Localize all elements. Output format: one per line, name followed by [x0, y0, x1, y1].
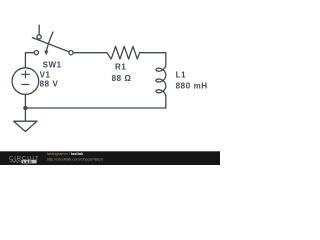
watermark bar: [0, 151, 220, 165]
switch SW1 right terminal: [69, 51, 73, 55]
wire V1 bottom to ground: [24, 94, 26, 121]
switch SW1 pivot stub wire: [38, 25, 40, 35]
wire left terminal to V1 top: [25, 53, 34, 68]
resistor R1 zigzag: [107, 46, 140, 59]
svg-text:farahgramm / lastlok: farahgramm / lastlok: [47, 151, 84, 156]
svg-text:88 Ω: 88 Ω: [112, 74, 132, 83]
svg-text:R1: R1: [115, 62, 126, 71]
svg-text:V1: V1: [40, 71, 51, 80]
inductor L1 coil: [156, 53, 166, 108]
switch SW1 arm: [32, 38, 69, 52]
wire right terminal to R1: [73, 52, 107, 54]
switch SW1 left terminal: [34, 51, 38, 55]
svg-text:88 V: 88 V: [40, 80, 59, 89]
junction node dot: [23, 106, 27, 110]
ground symbol: [14, 121, 37, 131]
svg-text:880 mH: 880 mH: [176, 82, 208, 91]
switch SW1 pivot circle: [37, 35, 41, 39]
V1 minus sign: [22, 84, 29, 86]
switch arrow head: [44, 51, 48, 56]
switch SW1 actuation arrow: [47, 32, 54, 51]
V1 plus sign: [22, 73, 30, 75]
voltage source V1 body: [12, 68, 39, 95]
svg-text:L1: L1: [176, 71, 187, 80]
svg-text:LAB: LAB: [23, 160, 32, 164]
bottom rail wire: [25, 107, 165, 109]
svg-text:SW1: SW1: [43, 60, 62, 69]
wire R1 to top-right corner: [140, 52, 166, 54]
svg-text:http://circuitlab.com/c/ba2a7d: http://circuitlab.com/c/ba2a7d6q7j: [47, 157, 104, 161]
watermark logo LAB box: [21, 160, 36, 164]
watermark logo zigzag: [9, 160, 21, 162]
